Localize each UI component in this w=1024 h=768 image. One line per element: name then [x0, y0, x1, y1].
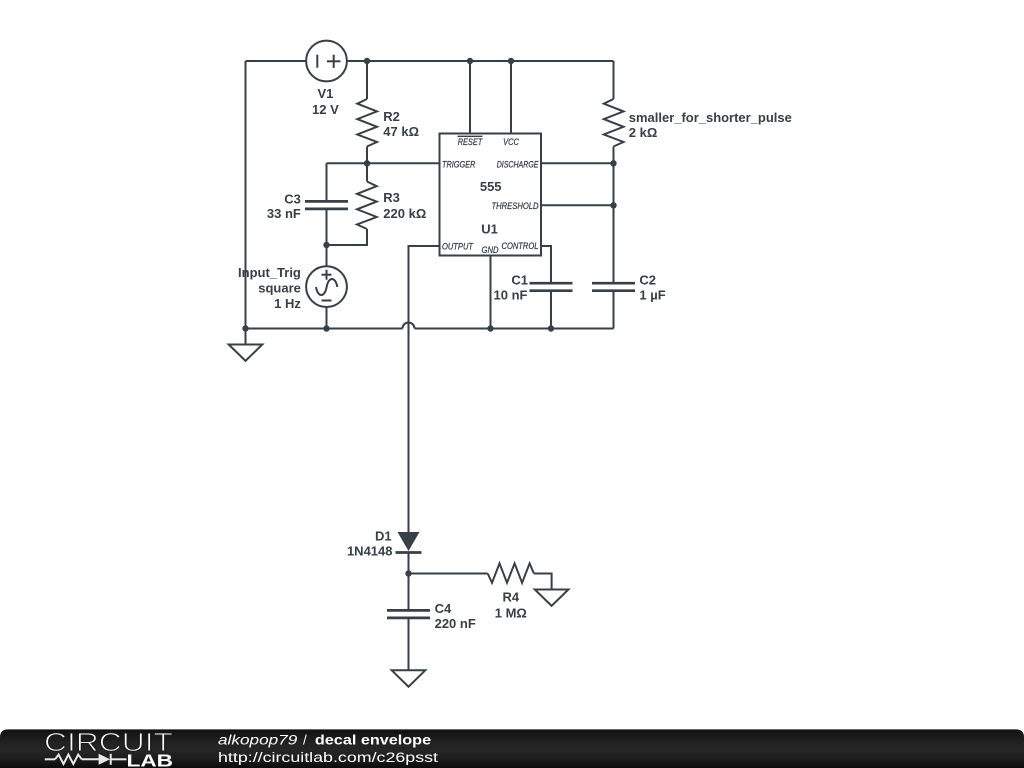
svg-text:220 kΩ: 220 kΩ	[383, 206, 426, 221]
svg-text:D1: D1	[375, 529, 392, 544]
svg-text:DISCHARGE: DISCHARGE	[497, 159, 540, 169]
svg-text:1 µF: 1 µF	[639, 288, 665, 303]
svg-text:TRIGGER: TRIGGER	[442, 159, 476, 169]
svg-text:/: /	[303, 733, 307, 748]
svg-text:V1: V1	[317, 86, 333, 101]
svg-text:C4: C4	[435, 601, 452, 616]
svg-text:smaller_for_shorter_pulse: smaller_for_shorter_pulse	[629, 110, 792, 125]
svg-text:R3: R3	[383, 190, 400, 205]
svg-text:12 V: 12 V	[312, 102, 339, 117]
svg-text:alkopop79: alkopop79	[218, 733, 298, 748]
svg-text:1 MΩ: 1 MΩ	[495, 606, 527, 621]
svg-text:Input_Trig: Input_Trig	[238, 265, 301, 280]
svg-text:LAB: LAB	[127, 751, 174, 768]
svg-text:1 Hz: 1 Hz	[274, 296, 301, 311]
svg-text:1N4148: 1N4148	[347, 544, 393, 559]
svg-text:47 kΩ: 47 kΩ	[383, 124, 419, 139]
svg-text:U1: U1	[481, 222, 498, 237]
svg-text:RESET: RESET	[458, 137, 484, 147]
svg-text:R4: R4	[502, 589, 519, 604]
svg-text:square: square	[258, 281, 301, 296]
svg-text:C2: C2	[639, 273, 656, 288]
svg-text:R2: R2	[383, 109, 400, 124]
svg-text:33 nF: 33 nF	[267, 206, 301, 221]
svg-text:OUTPUT: OUTPUT	[442, 242, 474, 252]
svg-text:CONTROL: CONTROL	[502, 241, 539, 251]
svg-text:10 nF: 10 nF	[494, 288, 528, 303]
svg-text:GND: GND	[482, 245, 499, 255]
svg-text:THRESHOLD: THRESHOLD	[492, 201, 539, 211]
svg-text:C3: C3	[284, 192, 301, 207]
svg-text:VCC: VCC	[503, 137, 519, 147]
svg-text:decal envelope: decal envelope	[315, 733, 432, 748]
svg-text:555: 555	[480, 179, 502, 194]
svg-text:http://circuitlab.com/c26psst: http://circuitlab.com/c26psst	[218, 750, 438, 765]
svg-text:220 nF: 220 nF	[435, 616, 476, 631]
svg-text:2 kΩ: 2 kΩ	[629, 125, 658, 140]
svg-text:C1: C1	[511, 273, 528, 288]
